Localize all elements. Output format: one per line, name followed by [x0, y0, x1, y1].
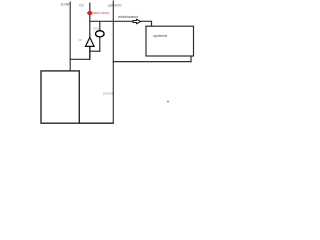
pump drop pipe — [99, 21, 101, 31]
pump outlet pipe — [99, 37, 101, 52]
wire wymiennik inlet drop — [151, 21, 153, 27]
check valve zw — [86, 37, 95, 46]
wire wymiennik outlet drop — [190, 56, 192, 62]
valve V1 red ball valve — [87, 10, 93, 16]
wire CO riser — [89, 3, 91, 38]
svg-text:zawór kulowy: zawór kulowy — [93, 11, 110, 15]
wire return run — [113, 61, 192, 63]
pump P1 — [96, 31, 105, 37]
wire do-MW riser — [69, 2, 71, 72]
buffer tank — [41, 71, 79, 123]
solenoid valve arrow — [133, 19, 141, 23]
node stray dot — [167, 101, 168, 102]
svg-text:powrót CO: powrót CO — [108, 3, 121, 7]
svg-text:pompa: pompa — [93, 27, 99, 31]
heat exchanger wymiennik — [146, 26, 194, 56]
svg-text:CO: CO — [79, 4, 83, 8]
wire CO riser lower — [89, 46, 91, 60]
svg-text:zw: zw — [79, 38, 82, 42]
wire tank feed cross — [70, 58, 91, 60]
wire tank outlet run — [79, 122, 114, 124]
wire pump to CO riser — [89, 50, 100, 52]
svg-text:do MW: do MW — [61, 3, 70, 7]
svg-text:wymiennik: wymiennik — [153, 34, 167, 38]
wire supply header — [90, 20, 152, 22]
svg-text:elektrozawór: elektrozawór — [118, 15, 138, 19]
svg-text:powrót: powrót — [103, 92, 113, 96]
wire powrot CO riser — [112, 1, 114, 124]
